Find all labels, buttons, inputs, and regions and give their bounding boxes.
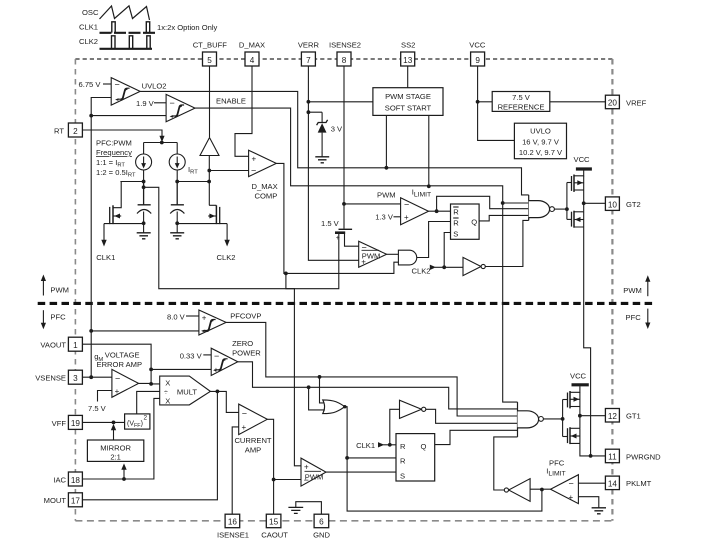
wire battery to PWM comparator minus bbox=[345, 234, 359, 246]
wire PFC flip-flop Q to NAND2 bbox=[435, 430, 518, 444]
wire ISENSE2 line bbox=[342, 66, 401, 229]
svg-text:−: − bbox=[404, 199, 409, 209]
amplifier CURRENT AMP bbox=[234, 404, 271, 454]
svg-text:9: 9 bbox=[475, 56, 480, 65]
svg-text:+: + bbox=[304, 462, 309, 471]
ground below C1 bbox=[137, 223, 151, 239]
wire flip-flop Q to NAND1 bbox=[479, 215, 529, 221]
svg-text:SS2: SS2 bbox=[401, 41, 415, 50]
svg-text:−: − bbox=[569, 479, 574, 489]
svg-text:ISENSE1: ISENSE1 bbox=[217, 531, 249, 540]
wire line1 branch to OR input 1 bbox=[320, 377, 325, 403]
svg-text:2:1: 2:1 bbox=[110, 453, 121, 462]
wire pin4 to D_MAX comp plus bbox=[235, 66, 252, 156]
wire UVLO2 output line A bbox=[140, 91, 529, 194]
PFC label right with down arrow bbox=[626, 309, 651, 329]
svg-text:PWRGND: PWRGND bbox=[626, 452, 661, 461]
multiplier MULT bbox=[160, 376, 211, 405]
wire VSENSE sense line to comparator + inputs bbox=[91, 98, 111, 378]
inverter CLK1 blanking bbox=[390, 400, 426, 445]
svg-text:R: R bbox=[453, 219, 459, 228]
wire PKLMT pin to comparator minus bbox=[578, 482, 605, 484]
pin 4 D_MAX bbox=[239, 41, 265, 67]
transistor upper GT2 driver bbox=[567, 170, 584, 219]
svg-text:CLK1: CLK1 bbox=[79, 23, 98, 32]
svg-text:COMP: COMP bbox=[255, 192, 278, 201]
svg-text:ISENSE2: ISENSE2 bbox=[329, 41, 361, 50]
svg-text:GND: GND bbox=[313, 531, 330, 540]
svg-text:OSC: OSC bbox=[82, 8, 99, 17]
wire inverted CLK2 to NAND1 bbox=[485, 220, 528, 266]
svg-text:PWM: PWM bbox=[50, 285, 69, 294]
inverter PFC ILIMIT bbox=[504, 479, 550, 502]
wire line2 branch to OR input 2 bbox=[309, 387, 325, 410]
svg-text:VSENSE: VSENSE bbox=[35, 374, 66, 383]
6.75 V reference label and stub bbox=[79, 80, 112, 89]
wire VERR to soft start box bbox=[308, 101, 373, 103]
svg-text:+: + bbox=[202, 314, 207, 323]
ground below C2 bbox=[170, 223, 184, 239]
svg-text:4: 4 bbox=[250, 56, 255, 65]
svg-text:VCC: VCC bbox=[574, 155, 591, 164]
svg-text:10.2 V, 9.7 V: 10.2 V, 9.7 V bbox=[519, 148, 563, 157]
comparator PWM ILIMIT bbox=[377, 188, 431, 225]
comparator PWM duty bbox=[359, 241, 387, 267]
wire IAC pin line bbox=[82, 398, 159, 481]
wire gt1 low side to PWRGND pin bbox=[580, 443, 606, 457]
PWM label right with up arrow bbox=[623, 275, 650, 296]
svg-text:1.3 V: 1.3 V bbox=[375, 213, 394, 222]
pin 19 VFF bbox=[52, 415, 83, 429]
svg-text:PWM: PWM bbox=[623, 286, 642, 295]
wire D_MAX comp output to AND gate and PFC duty line bbox=[276, 163, 398, 465]
transistor lower GT2 driver bbox=[567, 211, 584, 228]
svg-text:MIRROR: MIRROR bbox=[100, 444, 131, 453]
CLK1 net label arrow bbox=[356, 441, 396, 450]
svg-text:PFCOVP: PFCOVP bbox=[230, 312, 261, 321]
svg-text:Frequency: Frequency bbox=[96, 148, 132, 157]
svg-text:PWM: PWM bbox=[377, 191, 396, 200]
svg-text:REFERENCE: REFERENCE bbox=[498, 103, 545, 112]
wire MOUT pin to multiplier output bbox=[82, 391, 217, 499]
svg-text:PKLMT: PKLMT bbox=[626, 479, 652, 488]
wire ZERO POWER output line2 bbox=[238, 362, 518, 409]
svg-text:X: X bbox=[165, 397, 170, 406]
comparator UVLO2 bbox=[111, 78, 166, 106]
svg-text:MOUT: MOUT bbox=[44, 496, 67, 505]
pin 7 VERR bbox=[298, 41, 320, 67]
chip outline right dashed border bbox=[611, 59, 613, 521]
svg-text:2: 2 bbox=[73, 127, 78, 136]
svg-text:14: 14 bbox=[608, 480, 618, 489]
flip-flop PFC RS latch bbox=[396, 434, 435, 481]
svg-text:UVLO: UVLO bbox=[530, 127, 551, 136]
comparator PFC PWM bbox=[301, 458, 326, 486]
svg-text:VCC: VCC bbox=[469, 41, 486, 50]
svg-text:−: − bbox=[214, 351, 219, 361]
pin 1 VAOUT bbox=[40, 337, 82, 351]
svg-text:X: X bbox=[165, 379, 170, 388]
ground below zener bbox=[315, 157, 329, 163]
svg-text:+: + bbox=[252, 155, 257, 164]
svg-text:20: 20 bbox=[608, 99, 618, 108]
wire CLK2 to flip-flop S bbox=[444, 233, 450, 268]
svg-text:VFF: VFF bbox=[52, 419, 67, 428]
wire VERR line bbox=[307, 66, 359, 260]
node wire CT ramp left bbox=[120, 180, 145, 190]
wire PFCOVP output line1 bbox=[226, 322, 517, 416]
box 7.5V REFERENCE bbox=[492, 92, 550, 112]
PFC label left with down arrow bbox=[41, 310, 66, 329]
wire NAND1 output to driver gates bbox=[554, 207, 568, 211]
svg-text:7: 7 bbox=[306, 56, 311, 65]
ground at GND pin bbox=[288, 507, 303, 513]
svg-text:ENABLE: ENABLE bbox=[216, 97, 246, 106]
wire ENABLE output line B bbox=[195, 108, 503, 203]
svg-text:11: 11 bbox=[608, 453, 617, 462]
svg-text:PFC: PFC bbox=[549, 459, 565, 468]
svg-text:5: 5 bbox=[207, 56, 212, 65]
wire VAOUT branch to zero power plus bbox=[151, 368, 211, 370]
svg-text:2: 2 bbox=[144, 415, 148, 422]
svg-text:−: − bbox=[304, 475, 309, 485]
wire CT buffer to D_MAX comp minus bbox=[209, 170, 248, 172]
pin 6 GND bbox=[313, 514, 330, 539]
capacitor C1 bbox=[137, 182, 151, 226]
wire inverted CLK1 to NAND2 bbox=[426, 409, 518, 423]
svg-text:UVLO2: UVLO2 bbox=[142, 81, 167, 90]
svg-text:ERROR AMP: ERROR AMP bbox=[97, 360, 143, 369]
gate AND2 pwm clk gate bbox=[387, 250, 417, 265]
pin 13 SS2 bbox=[401, 41, 416, 67]
svg-text:VREF: VREF bbox=[626, 98, 647, 107]
pin 14 PKLMT bbox=[605, 476, 651, 490]
svg-text:S: S bbox=[453, 229, 458, 238]
svg-text:16 V, 9.7 V: 16 V, 9.7 V bbox=[522, 138, 560, 147]
1.3 V reference label and stub bbox=[375, 213, 400, 222]
pin 10 GT2 bbox=[605, 197, 640, 211]
chip outline left dashed border bbox=[74, 59, 76, 521]
CLK2 net label arrow bbox=[412, 265, 447, 276]
wire gt2 low side return to pwrgnd bbox=[584, 227, 591, 456]
capacitor C2 bbox=[170, 182, 184, 226]
PFC:PWM Frequency note bbox=[96, 139, 136, 179]
svg-text:VOLTAGE: VOLTAGE bbox=[105, 351, 140, 360]
svg-text:1.9 V: 1.9 V bbox=[136, 99, 155, 108]
svg-text:CAOUT: CAOUT bbox=[261, 531, 288, 540]
svg-text:IAC: IAC bbox=[53, 475, 66, 484]
wire soft start right output to line B bbox=[427, 115, 431, 188]
1.9 V reference label and stub bbox=[136, 99, 166, 108]
wire ramp node to PWM battery bbox=[144, 187, 339, 288]
comparator PFC ILIMIT bbox=[546, 459, 578, 504]
svg-text:−: − bbox=[115, 374, 120, 384]
wire error amp output to multiplier bbox=[139, 382, 160, 385]
svg-text:7.5 V: 7.5 V bbox=[512, 93, 531, 102]
svg-text:PFC: PFC bbox=[50, 313, 66, 322]
gate OR pfc reset bbox=[323, 400, 345, 414]
wire IAC up arrow into mirror bbox=[121, 463, 126, 479]
OSC waveform bbox=[82, 6, 150, 20]
junction 1.9V comp + input bbox=[89, 114, 166, 118]
svg-text:D_MAX: D_MAX bbox=[239, 41, 265, 50]
box PWM STAGE SOFT START bbox=[373, 66, 443, 115]
comparator ZERO POWER bbox=[211, 339, 261, 376]
CLK1 output arrow bbox=[96, 224, 115, 262]
svg-text:SOFT START: SOFT START bbox=[385, 104, 432, 113]
svg-text:AMP: AMP bbox=[245, 446, 261, 455]
pin 2 RT bbox=[54, 123, 82, 137]
pin 15 CAOUT bbox=[261, 514, 288, 539]
svg-text:CURRENT: CURRENT bbox=[234, 436, 271, 445]
comparator D_MAX COMP bbox=[249, 150, 278, 200]
buffer CT_BUFF bbox=[200, 66, 219, 205]
svg-text:RT: RT bbox=[54, 126, 64, 135]
svg-text:7.5 V: 7.5 V bbox=[88, 404, 107, 413]
svg-text:−: − bbox=[251, 166, 256, 176]
junction ENABLE at NAND1 input bbox=[501, 201, 529, 205]
transistor Q2 CLK2 discharge bbox=[177, 205, 227, 224]
pin 20 VREF bbox=[605, 95, 646, 109]
svg-text:POWER: POWER bbox=[232, 348, 261, 357]
svg-text:VCC: VCC bbox=[570, 372, 587, 381]
VCC rail bar gt2 bbox=[576, 167, 592, 170]
pin 8 ISENSE2 bbox=[329, 41, 361, 67]
CLK1 waveform bbox=[79, 22, 155, 33]
battery 1.5V offset bbox=[321, 219, 352, 242]
gate NAND1 gt2 driver bbox=[529, 195, 555, 221]
wire NAND2 output to gt1 gates bbox=[543, 417, 564, 421]
comparator 1.9V ENABLE bbox=[166, 94, 195, 121]
pin 11 PWRGND bbox=[605, 449, 661, 463]
svg-text:GT2: GT2 bbox=[626, 200, 641, 209]
svg-text:8.0 V: 8.0 V bbox=[167, 312, 186, 321]
svg-text:D_MAX: D_MAX bbox=[252, 182, 278, 191]
svg-text:S: S bbox=[400, 472, 405, 481]
svg-text:6.75 V: 6.75 V bbox=[79, 80, 102, 89]
svg-text:+: + bbox=[404, 213, 409, 222]
pin 3 VSENSE bbox=[35, 370, 82, 384]
wire gt2 output node bbox=[582, 176, 606, 212]
wire ILIMIT output to flip-flop and NAND bbox=[429, 196, 529, 213]
wire VFF pin to squarer bbox=[82, 421, 124, 425]
svg-text:16: 16 bbox=[228, 518, 238, 527]
svg-text:1x:2x Option Only: 1x:2x Option Only bbox=[157, 23, 218, 32]
comparator PFCOVP bbox=[199, 310, 262, 336]
pin 17 MOUT bbox=[44, 493, 83, 507]
svg-text:−: − bbox=[170, 98, 175, 108]
wire current amp output to CAOUT and PWM comparator bbox=[267, 419, 301, 514]
svg-text:PFC: PFC bbox=[626, 313, 642, 322]
svg-text:R: R bbox=[400, 442, 406, 451]
flip-flop PWM RS latch bbox=[451, 204, 480, 239]
svg-text:12: 12 bbox=[608, 412, 618, 421]
svg-text:CLK1: CLK1 bbox=[356, 441, 375, 450]
transistor lower GT1 driver bbox=[563, 427, 580, 444]
current source I2 bbox=[169, 143, 185, 182]
pin 5 CT_BUFF bbox=[193, 41, 228, 67]
pin 16 ISENSE1 bbox=[217, 514, 249, 539]
svg-text:+: + bbox=[115, 387, 120, 396]
wire VAOUT line bbox=[82, 344, 153, 386]
wire comparator plus to ground bbox=[578, 497, 598, 508]
wire GND pin to ground bbox=[296, 502, 322, 515]
svg-text:+: + bbox=[242, 423, 247, 432]
svg-text:3 V: 3 V bbox=[331, 125, 343, 134]
junction VSENSE line to PFCOVP minus bbox=[89, 329, 199, 333]
box UVLO thresholds bbox=[514, 123, 566, 159]
svg-text:R: R bbox=[400, 457, 406, 466]
0.33 V label and stub bbox=[180, 351, 212, 360]
svg-text:−: − bbox=[115, 80, 120, 90]
wire reference to VREF pin bbox=[550, 101, 606, 103]
zener diode 3V clamp bbox=[308, 112, 343, 156]
svg-text:+: + bbox=[336, 235, 340, 242]
svg-text:CLK2: CLK2 bbox=[217, 253, 236, 262]
amplifier gm VOLTAGE ERROR AMP bbox=[94, 351, 142, 398]
wire gt1 output node bbox=[578, 392, 605, 428]
wire mirror output up arrow to VFF line bbox=[111, 424, 116, 440]
svg-text:18: 18 bbox=[71, 476, 81, 485]
wire soft start left output to line A bbox=[385, 115, 389, 169]
wire AND output to flip-flop R bbox=[417, 222, 451, 258]
ground at pklmt comparator bbox=[592, 508, 606, 514]
svg-text:ZERO: ZERO bbox=[232, 339, 253, 348]
chip outline top dashed border bbox=[75, 58, 612, 60]
node wire CT ramp right bbox=[175, 180, 211, 184]
wire VCC pin feed bbox=[476, 66, 515, 140]
svg-text:0.33 V: 0.33 V bbox=[180, 351, 203, 360]
chip outline bottom dashed border bbox=[75, 520, 612, 522]
gate NAND2 gt1 driver bbox=[518, 402, 544, 437]
svg-text:10: 10 bbox=[608, 200, 618, 209]
box MIRROR 2:1 bbox=[87, 440, 143, 462]
transistor Q1 CLK1 discharge bbox=[104, 182, 144, 225]
svg-text:13: 13 bbox=[403, 56, 413, 65]
svg-text:1: 1 bbox=[73, 341, 78, 350]
svg-text:+: + bbox=[569, 493, 574, 502]
wire inverted ilimit up to NAND2 bbox=[494, 437, 518, 490]
svg-text:17: 17 bbox=[71, 497, 81, 506]
wire OR output to flip-flop R and pklmt comparator bbox=[343, 405, 542, 511]
7.5 V reference stub for error amp bbox=[88, 391, 112, 414]
wire PFC PWM output to flip-flop S bbox=[326, 471, 396, 473]
svg-text:CLK2: CLK2 bbox=[412, 267, 431, 276]
svg-text:PFC:PWM: PFC:PWM bbox=[96, 139, 132, 148]
wire VFF squared to multiplier divide input bbox=[137, 391, 160, 414]
pin 18 IAC bbox=[53, 472, 82, 486]
svg-text:PWM STAGE: PWM STAGE bbox=[385, 92, 431, 101]
inverter CLK2 blanking bbox=[444, 257, 485, 275]
box VFF squared bbox=[125, 414, 150, 429]
wire VSENSE pin to error amp minus bbox=[82, 375, 112, 379]
svg-text:1.5 V: 1.5 V bbox=[321, 219, 340, 228]
svg-text:GT1: GT1 bbox=[626, 412, 641, 421]
current source I1 bbox=[136, 143, 152, 182]
wire RT to current source node with down arrow bbox=[82, 130, 177, 144]
svg-text:+: + bbox=[361, 258, 366, 267]
svg-text:8: 8 bbox=[342, 56, 347, 65]
transistor upper GT1 driver bbox=[563, 386, 580, 436]
PWM/PFC section divider bbox=[38, 302, 656, 305]
svg-text:VERR: VERR bbox=[298, 41, 320, 50]
svg-text:Q: Q bbox=[421, 442, 427, 451]
svg-text:MULT: MULT bbox=[177, 387, 197, 396]
svg-text:15: 15 bbox=[269, 518, 279, 527]
svg-text:3: 3 bbox=[73, 374, 78, 383]
wire multiplier output node bbox=[210, 390, 238, 413]
svg-text:6: 6 bbox=[319, 518, 324, 527]
pin 12 GT1 bbox=[605, 409, 640, 423]
svg-text:CT_BUFF: CT_BUFF bbox=[193, 41, 228, 50]
pin 9 VCC bbox=[469, 41, 486, 67]
wire ISENSE1 pin to current amp plus bbox=[232, 427, 239, 514]
CLK2 waveform bbox=[79, 36, 152, 49]
svg-text:−: − bbox=[242, 409, 247, 419]
8.0 V label and stub bbox=[167, 312, 199, 321]
wire ENABLE down to PFC NAND2 bbox=[503, 203, 518, 402]
PWM label left with up arrow bbox=[41, 275, 69, 296]
svg-text:CLK2: CLK2 bbox=[79, 37, 98, 46]
svg-text:Q: Q bbox=[471, 217, 477, 226]
VCC rail bar gt1 bbox=[572, 383, 589, 386]
svg-text:CLK1: CLK1 bbox=[96, 253, 115, 262]
svg-text:VAOUT: VAOUT bbox=[40, 341, 66, 350]
svg-text:R: R bbox=[453, 208, 459, 217]
svg-text:19: 19 bbox=[71, 419, 81, 428]
CLK2 output arrow bbox=[217, 224, 236, 262]
